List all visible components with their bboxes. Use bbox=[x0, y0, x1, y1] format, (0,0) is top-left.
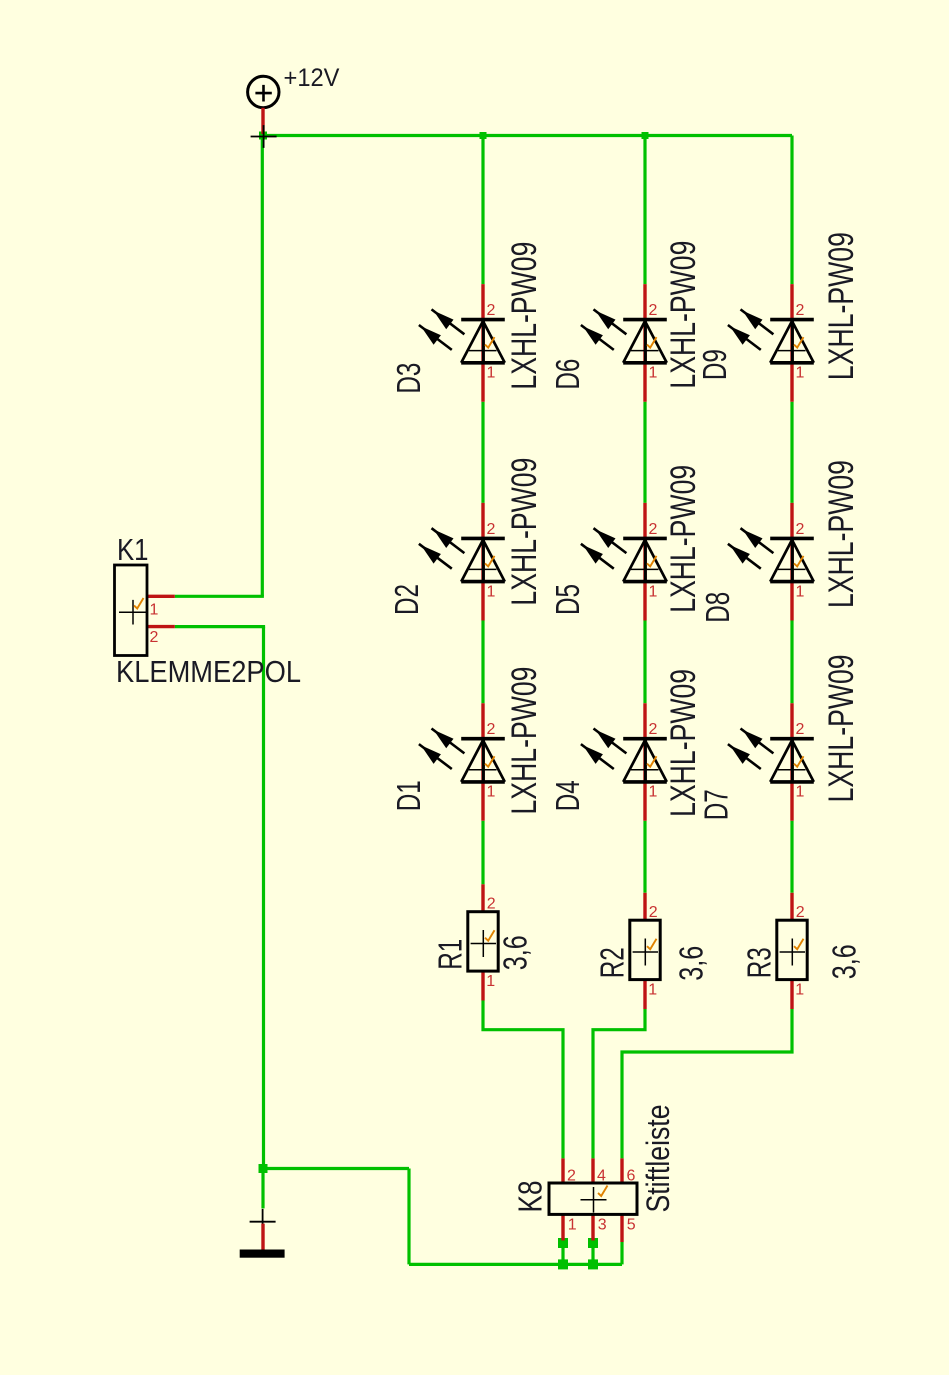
junction dot GND node bbox=[259, 1164, 268, 1173]
wire +12V rail top horizontal bbox=[262, 134, 792, 137]
+12V node cross bbox=[251, 125, 277, 148]
svg-text:LXHL-PW09: LXHL-PW09 bbox=[822, 654, 861, 802]
LED D8 (D8) pins bbox=[790, 503, 793, 621]
svg-text:1: 1 bbox=[487, 365, 496, 382]
LED D2 symbol bbox=[419, 528, 505, 581]
svg-text:D7: D7 bbox=[698, 789, 735, 820]
svg-text:D5: D5 bbox=[549, 584, 586, 615]
wire column A LED3-resistor bbox=[481, 821, 484, 885]
junction dot +12V node bbox=[259, 132, 267, 140]
wire column C LED1-LED2 bbox=[790, 402, 793, 503]
wire R3 to K8 pin6 bbox=[622, 1009, 792, 1158]
svg-text:R2: R2 bbox=[593, 947, 630, 978]
LED D7 (D7) pins bbox=[790, 703, 793, 821]
svg-text:+12V: +12V bbox=[284, 64, 340, 92]
header K8 pin 1 bottom bbox=[561, 1214, 564, 1240]
resistor R3 pins bbox=[790, 893, 793, 920]
svg-text:K8: K8 bbox=[512, 1181, 549, 1213]
terminal K1 pin 1 bbox=[147, 595, 175, 598]
wire K8 pin3 to bottom rail bbox=[591, 1243, 594, 1264]
svg-text:LXHL-PW09: LXHL-PW09 bbox=[822, 460, 861, 608]
svg-text:D8: D8 bbox=[699, 592, 736, 623]
svg-text:LXHL-PW09: LXHL-PW09 bbox=[505, 667, 544, 815]
junction dot K8 pin3 bottom bbox=[588, 1259, 598, 1269]
header K8 pin 2 top bbox=[561, 1158, 564, 1183]
LED D1 (D1) pins bbox=[481, 703, 484, 821]
wire bottom-run vertical bbox=[407, 1169, 410, 1265]
junction dot rail column B bbox=[642, 132, 649, 139]
svg-text:R3: R3 bbox=[740, 947, 777, 978]
wire K1 pin2 horizontal bbox=[175, 625, 265, 628]
svg-text:D4: D4 bbox=[549, 780, 586, 811]
wire column C LED2-LED3 bbox=[790, 621, 793, 704]
+12V supply symbol bbox=[248, 76, 279, 107]
wire left rail upper (K1 pin1 to +12V rail) bbox=[261, 136, 264, 597]
wire column A rail to LED top bbox=[481, 136, 484, 285]
junction dot rail column A bbox=[480, 132, 487, 139]
junction dot K8 pin1 bottom bbox=[558, 1259, 568, 1269]
svg-text:2: 2 bbox=[649, 721, 658, 738]
terminal K1 pin 2 bbox=[147, 625, 175, 628]
svg-text:1: 1 bbox=[649, 784, 658, 801]
svg-text:1: 1 bbox=[648, 982, 657, 999]
junction dot K8 pin3 top bbox=[588, 1238, 598, 1248]
svg-text:LXHL-PW09: LXHL-PW09 bbox=[822, 232, 861, 380]
svg-text:2: 2 bbox=[487, 896, 496, 913]
svg-text:LXHL-PW09: LXHL-PW09 bbox=[664, 465, 703, 613]
wire K8 pin5 riser bbox=[620, 1242, 623, 1264]
header K8 pin 5 bottom bbox=[620, 1214, 623, 1242]
svg-text:2: 2 bbox=[796, 904, 805, 921]
svg-text:LXHL-PW09: LXHL-PW09 bbox=[505, 458, 544, 606]
svg-text:1: 1 bbox=[487, 784, 496, 801]
junction dot K8 pin1 top bbox=[558, 1238, 568, 1248]
LED D1 symbol bbox=[419, 729, 505, 782]
wire column C LED3-resistor bbox=[790, 821, 793, 893]
svg-text:3,6: 3,6 bbox=[496, 935, 533, 970]
svg-text:1: 1 bbox=[150, 602, 159, 619]
svg-text:2: 2 bbox=[796, 721, 805, 738]
resistor R1 pins bbox=[481, 884, 484, 911]
LED D4 symbol bbox=[581, 729, 667, 782]
wire R2 to K8 pin4 bbox=[593, 1009, 645, 1158]
svg-text:1: 1 bbox=[649, 365, 658, 382]
svg-text:3: 3 bbox=[598, 1217, 607, 1234]
LED D9 (D9) pins bbox=[790, 284, 793, 402]
svg-text:1: 1 bbox=[649, 583, 658, 600]
svg-text:D3: D3 bbox=[390, 363, 427, 394]
terminal K1 body bbox=[115, 565, 148, 656]
LED D9 symbol bbox=[728, 309, 814, 362]
wire column B LED2-LED3 bbox=[643, 621, 646, 704]
header K8 pin 3 bottom bbox=[591, 1214, 594, 1240]
svg-text:1: 1 bbox=[486, 973, 495, 990]
LED D6 (D6) pins bbox=[643, 284, 646, 402]
svg-text:4: 4 bbox=[597, 1167, 606, 1184]
svg-text:3,6: 3,6 bbox=[673, 946, 710, 981]
header K8 body bbox=[549, 1183, 637, 1214]
svg-text:KLEMME2POL: KLEMME2POL bbox=[116, 654, 301, 689]
wire ground stub bbox=[261, 1169, 264, 1209]
svg-text:2: 2 bbox=[796, 521, 805, 538]
svg-text:2: 2 bbox=[649, 302, 658, 319]
ground pin stub bbox=[261, 1224, 264, 1250]
svg-text:2: 2 bbox=[487, 302, 496, 319]
svg-text:2: 2 bbox=[150, 629, 159, 646]
LED D3 symbol bbox=[419, 309, 505, 362]
svg-text:2: 2 bbox=[487, 721, 496, 738]
svg-text:D2: D2 bbox=[388, 584, 425, 615]
svg-text:1: 1 bbox=[796, 583, 805, 600]
resistor R3 body bbox=[777, 920, 807, 979]
header K8 pin 6 top bbox=[620, 1158, 623, 1183]
resistor R2 pins bbox=[643, 893, 646, 920]
svg-text:LXHL-PW09: LXHL-PW09 bbox=[505, 242, 544, 390]
LED D4 (D4) pins bbox=[643, 703, 646, 821]
LED D3 (D3) pins bbox=[481, 284, 484, 402]
LED D5 symbol bbox=[581, 528, 667, 581]
wire R1 to K8 pin2 bbox=[483, 1001, 563, 1159]
wire GND junction to bottom-run vertical bbox=[264, 1167, 410, 1170]
wire column B LED3-resistor bbox=[643, 821, 646, 893]
svg-text:1: 1 bbox=[796, 784, 805, 801]
svg-text:K1: K1 bbox=[117, 532, 149, 567]
header K8 pin 4 top bbox=[591, 1158, 594, 1183]
svg-text:1: 1 bbox=[796, 365, 805, 382]
wire column A LED1-LED2 bbox=[481, 402, 484, 503]
svg-text:2: 2 bbox=[796, 302, 805, 319]
wire bottom horizontal to K8 pin5 bbox=[409, 1263, 622, 1266]
wire column B rail to LED top bbox=[643, 136, 646, 285]
+12V pin stub bbox=[261, 108, 264, 134]
wire column C rail to LED top bbox=[790, 136, 793, 285]
svg-text:1: 1 bbox=[487, 583, 496, 600]
wire K1 pin1 horizontal bbox=[175, 595, 264, 598]
svg-text:2: 2 bbox=[649, 521, 658, 538]
wire column A LED2-LED3 bbox=[481, 621, 484, 704]
svg-text:6: 6 bbox=[627, 1167, 636, 1184]
LED D8 symbol bbox=[728, 528, 814, 581]
resistor R1 body bbox=[468, 912, 498, 971]
svg-text:3,6: 3,6 bbox=[826, 944, 863, 979]
svg-text:1: 1 bbox=[568, 1217, 577, 1234]
svg-text:D1: D1 bbox=[390, 780, 427, 811]
LED D5 (D5) pins bbox=[643, 503, 646, 621]
svg-text:1: 1 bbox=[795, 982, 804, 999]
LED D7 symbol bbox=[728, 729, 814, 782]
wire left rail lower (K1 pin2 to GND junction) bbox=[262, 627, 265, 1169]
resistor R2 body bbox=[630, 920, 660, 979]
wire K8 pin1 to bottom rail bbox=[561, 1243, 564, 1264]
LED D2 (D2) pins bbox=[481, 503, 484, 621]
svg-text:2: 2 bbox=[567, 1167, 576, 1184]
LED D6 symbol bbox=[581, 309, 667, 362]
ground symbol bar bbox=[240, 1250, 285, 1258]
svg-text:2: 2 bbox=[649, 904, 658, 921]
svg-text:D9: D9 bbox=[696, 349, 733, 380]
svg-text:2: 2 bbox=[487, 521, 496, 538]
svg-text:5: 5 bbox=[627, 1217, 636, 1234]
ground node cross bbox=[250, 1209, 276, 1235]
wire column B LED1-LED2 bbox=[643, 402, 646, 503]
svg-text:Stiftleiste: Stiftleiste bbox=[640, 1105, 676, 1213]
svg-text:R1: R1 bbox=[431, 939, 468, 970]
svg-text:D6: D6 bbox=[549, 359, 586, 390]
